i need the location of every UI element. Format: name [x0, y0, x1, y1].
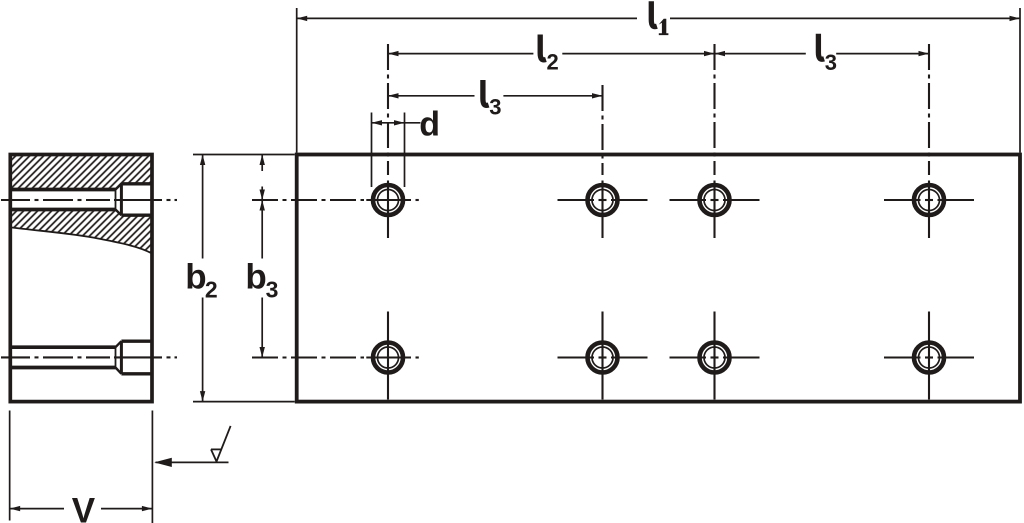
hole A2 bore circle [592, 190, 613, 211]
svg-text:d: d [419, 106, 440, 144]
vertical centerline column 1 bottom row [387, 312, 389, 400]
section view hatch upper region [12, 156, 152, 190]
edge margin dimension lower arrow [260, 187, 265, 201]
svg-text:3: 3 [489, 95, 501, 120]
hole A4 counterbore circle [914, 185, 944, 215]
section top hole counterbore [121, 184, 151, 215]
dimension d extension lines [372, 113, 405, 188]
svg-text:b: b [245, 257, 266, 296]
dimension V line and arrows [10, 506, 153, 511]
dimension l2 line and arrows [388, 51, 715, 56]
hole A1 bore circle [378, 190, 399, 211]
vertical centerline column 1 top row [387, 44, 389, 238]
section top hole countersink cone [116, 184, 122, 215]
section bottom hole countersink cone [116, 341, 122, 374]
hole B3 horizontal centerline [670, 356, 760, 358]
section centerline top hole [1, 199, 177, 201]
vertical centerline column 3 bottom row [713, 312, 715, 400]
centerline row2 col1 / b3 extension [252, 356, 419, 358]
hole B2 counterbore circle [588, 343, 618, 373]
hole B2 bore circle [592, 347, 613, 368]
hole B1 counterbore circle [373, 343, 403, 373]
hole B4 counterbore circle [914, 343, 944, 373]
vertical centerline column 4 top row [928, 44, 930, 238]
svg-text:2: 2 [205, 276, 218, 302]
hole B4 horizontal centerline [884, 356, 974, 358]
label l2 [540, 35, 559, 75]
label b2 [185, 257, 217, 302]
section top hole bore [12, 190, 116, 210]
svg-text:2: 2 [547, 50, 559, 75]
dimension V extension lines [10, 411, 153, 523]
dimension d line and arrows [372, 120, 421, 125]
hole A2 counterbore circle [588, 185, 618, 215]
label b3 [245, 257, 278, 302]
surface finish leader arrow [154, 458, 228, 467]
edge margin dimension upper arrow [260, 155, 265, 172]
hole A2 horizontal centerline [558, 199, 648, 201]
hole A1 counterbore circle [373, 185, 403, 215]
dimension l3 (lower) line and arrows [388, 93, 603, 98]
section bottom hole bore [12, 347, 116, 367]
label l3 (right) [818, 34, 837, 75]
hole A3 counterbore circle [700, 185, 730, 215]
surface finish symbol [211, 426, 231, 462]
svg-text:3: 3 [266, 276, 279, 302]
hole B4 bore circle [919, 347, 940, 368]
hole A3 horizontal centerline [670, 199, 760, 201]
svg-text:V: V [72, 491, 96, 523]
dimension b2 line and arrows [200, 155, 205, 402]
dimension l1 extension lines [297, 8, 1020, 153]
break line (wavy) [12, 228, 152, 254]
section view outline [10, 155, 152, 402]
vertical centerline column 3 top row [713, 44, 715, 238]
hole B1 bore circle [378, 347, 399, 368]
hole A4 bore circle [919, 190, 940, 211]
dimension b3 line and arrows [260, 200, 265, 358]
dimension b2 extension lines [193, 155, 295, 402]
hole A3 bore circle [704, 190, 725, 211]
label l1 [651, 1, 668, 35]
svg-text:b: b [185, 257, 206, 296]
hole B2 horizontal centerline [558, 356, 648, 358]
dimension l1 line and arrows [297, 16, 1020, 21]
dimension l3 (right) line and arrows [715, 51, 930, 56]
centerline row1 col1 / b3 extension [252, 199, 419, 201]
vertical centerline column 2 top row [601, 85, 603, 238]
plate outline (top view) [297, 155, 1020, 402]
hole B3 bore circle [704, 347, 725, 368]
section bottom hole counterbore [121, 341, 151, 374]
label l3 (lower) [483, 80, 502, 120]
svg-text:3: 3 [825, 50, 837, 75]
section view hatch lower region [12, 210, 152, 253]
section centerline bottom hole [1, 356, 177, 358]
hole B3 counterbore circle [700, 343, 730, 373]
vertical centerline column 4 bottom row [928, 312, 930, 400]
vertical centerline column 2 bottom row [601, 312, 603, 400]
hole A4 horizontal centerline [884, 199, 974, 201]
